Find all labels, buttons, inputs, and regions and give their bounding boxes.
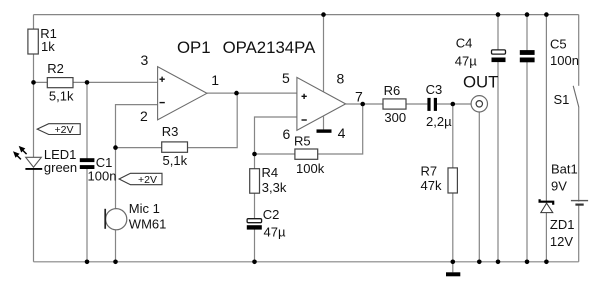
wire ZD1 branch (545, 15, 547, 262)
svg-text:R3: R3 (162, 124, 179, 139)
LED1 (13, 146, 77, 175)
junction bottom rail C1 (85, 260, 90, 265)
junction R2 right / C1 node (85, 80, 90, 85)
junction bottom rail mic (113, 260, 118, 265)
svg-text:47µ: 47µ (264, 225, 286, 240)
svg-text:47µ: 47µ (455, 54, 477, 69)
svg-text:2: 2 (140, 108, 148, 124)
svg-text:OPA2134PA: OPA2134PA (223, 38, 316, 57)
svg-text:Mic 1: Mic 1 (129, 201, 160, 216)
svg-text:100n: 100n (88, 168, 117, 183)
op-amp OP1 stage A (158, 67, 207, 120)
svg-text:8: 8 (337, 71, 345, 87)
wire op1 inverting input (116, 105, 158, 148)
wire right vertical lower (S1 to battery to rail) (578, 108, 580, 262)
wire op1 output to op2 +in (207, 92, 297, 94)
wire R5 row feedback (255, 104, 363, 154)
svg-text:+2V: +2V (138, 174, 157, 186)
svg-text:5,1k: 5,1k (163, 153, 188, 168)
svg-text:100k: 100k (296, 161, 325, 176)
flag +2V left (37, 124, 80, 137)
svg-text:C2: C2 (263, 207, 280, 222)
capacitor C4 (polarized) (455, 36, 506, 69)
junction pin7 feedback node (360, 102, 365, 107)
white gap masks under capacitors and battery (27, 53, 587, 226)
junction R2 left node (31, 80, 36, 85)
svg-text:OP1: OP1 (177, 38, 211, 57)
svg-text:R6: R6 (384, 83, 401, 98)
junction bottom rail ZD1 (544, 260, 549, 265)
capacitor C1 (80, 155, 117, 183)
wire OUT jack down (478, 112, 480, 262)
junction R4 R5 node (252, 152, 257, 157)
svg-text:6: 6 (283, 126, 291, 142)
svg-text:Bat1: Bat1 (551, 162, 578, 177)
wire top rail (34, 14, 579, 16)
svg-text:C3: C3 (426, 82, 443, 97)
resistor R5 (294, 134, 325, 177)
svg-text:5: 5 (282, 70, 290, 86)
ground pin 4 (317, 116, 332, 133)
wire op2 pin8 supply (323, 15, 325, 92)
svg-text:9V: 9V (551, 179, 567, 194)
wire op2 inverting input (255, 117, 297, 154)
svg-text:R7: R7 (421, 164, 438, 179)
svg-text:R4: R4 (262, 165, 279, 180)
wire C5 branch (526, 15, 528, 262)
resistor R3 (162, 124, 188, 168)
svg-text:ZD1: ZD1 (550, 217, 575, 232)
svg-text:S1: S1 (554, 92, 570, 107)
wire R3 row (116, 93, 238, 148)
resistor R7 (421, 164, 458, 194)
svg-text:green: green (44, 160, 77, 175)
wire bottom rail (34, 261, 579, 263)
svg-text:4: 4 (338, 125, 346, 141)
junction bottom rail R7 ground (451, 260, 456, 265)
junction bottom rail C4 (496, 260, 501, 265)
svg-text:47k: 47k (421, 178, 442, 193)
junction bottom rail C2 (252, 260, 257, 265)
junction R3 left / mic node (113, 145, 118, 150)
resistor R6 (383, 83, 406, 125)
svg-text:100n: 100n (550, 53, 579, 68)
capacitor C5 (520, 36, 579, 68)
svg-text:WM61: WM61 (129, 217, 167, 232)
wire C4 branch (497, 15, 499, 262)
svg-text:+2V: +2V (55, 124, 74, 136)
wire R2 row to op-amp +in (34, 81, 158, 83)
svg-text:300: 300 (384, 110, 406, 125)
svg-text:1: 1 (211, 72, 219, 88)
junction bottom rail C5 (525, 260, 530, 265)
OUT jack (471, 96, 487, 112)
microphone Mic1 (105, 201, 166, 231)
wire left vertical (33, 15, 35, 262)
svg-text:OUT: OUT (463, 73, 498, 92)
op-amp OP1 stage B (297, 77, 346, 130)
wire R7 branch (452, 104, 454, 262)
flag +2V mic (119, 173, 162, 186)
svg-text:3,3k: 3,3k (262, 180, 287, 195)
svg-text:C5: C5 (550, 36, 567, 51)
junction top rail C5 (525, 12, 530, 17)
svg-text:3: 3 (141, 52, 149, 68)
svg-text:2,2µ: 2,2µ (426, 114, 452, 129)
svg-text:12V: 12V (550, 234, 573, 249)
label OP1 OPA2134PA (177, 38, 316, 57)
wire right vertical upper (to S1) (578, 15, 580, 86)
svg-text:R5: R5 (294, 134, 311, 149)
junction op1 output node (234, 91, 239, 96)
resistor R1 (28, 26, 57, 54)
wire mic branch (115, 148, 117, 262)
junction bottom rail OUT (477, 260, 482, 265)
junction top rail C4 (496, 12, 501, 17)
svg-text:R2: R2 (47, 61, 64, 76)
battery Bat1 (551, 162, 588, 206)
junction top rail pin8 (321, 12, 326, 17)
wire op2 output row to OUT jack (346, 103, 472, 105)
switch S1 (554, 86, 579, 108)
svg-text:C4: C4 (456, 36, 473, 51)
junction C3 out / R7 node (451, 102, 456, 107)
wire C1 branch (86, 82, 88, 261)
resistor R2 (47, 61, 74, 103)
resistor R4 (250, 165, 287, 195)
capacitor C3 (426, 82, 452, 129)
capacitor C2 (polarized) (247, 207, 286, 239)
svg-text:1k: 1k (41, 39, 55, 54)
wire R4 C2 branch (254, 154, 256, 262)
zener diode ZD1 (540, 199, 575, 249)
junction top rail ZD1 (544, 12, 549, 17)
ground bottom rail node (446, 262, 460, 277)
svg-text:5,1k: 5,1k (49, 88, 74, 103)
